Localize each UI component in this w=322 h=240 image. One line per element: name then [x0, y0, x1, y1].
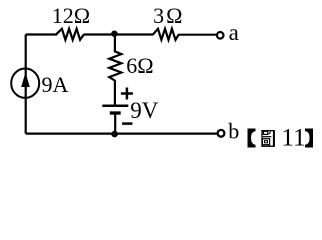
node: bottom junction: [111, 131, 118, 138]
wire: top from source to R1: [26, 33, 57, 35]
wire: top from R1 to R2: [84, 33, 154, 35]
resistor R3 6Ω zigzag (vertical): [109, 51, 121, 80]
svg-text:9V: 9V: [130, 98, 159, 123]
wire: middle branch from node to R3: [114, 34, 116, 53]
wire: battery to bottom wire: [114, 113, 116, 134]
resistor R2 3Ω zigzag: [153, 29, 179, 40]
label − polarity: [122, 122, 132, 125]
svg-text:9A: 9A: [42, 72, 69, 97]
svg-text:12Ω: 12Ω: [52, 3, 90, 28]
caption 【圖 11】: [248, 123, 314, 152]
svg-text:11: 11: [281, 123, 306, 152]
bracket 【: [248, 129, 256, 148]
svg-text:6Ω: 6Ω: [126, 53, 153, 78]
svg-text:3Ω: 3Ω: [153, 3, 184, 28]
wire: bottom from source to terminal b: [26, 133, 217, 135]
wire: left branch vertical: [25, 35, 27, 134]
character 圖 (simplified strokes): [262, 130, 274, 146]
battery V1 9V: [102, 106, 128, 113]
resistor R1 12Ω zigzag: [56, 29, 84, 40]
svg-text:a: a: [229, 20, 239, 45]
wire: top from R2 to terminal a: [179, 34, 217, 36]
svg-text:b: b: [228, 118, 239, 143]
bracket 】: [305, 129, 313, 148]
label + polarity: [121, 88, 133, 100]
node: top junction: [111, 31, 117, 37]
wire: R3 to battery top plate: [114, 80, 116, 106]
terminal b (open circle): [218, 130, 225, 137]
current source I1 9A: [11, 69, 39, 99]
terminal a (open circle): [217, 32, 224, 39]
